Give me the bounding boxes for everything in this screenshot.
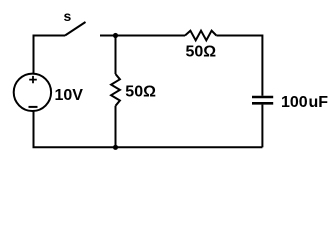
wire: bottom rail and left vertical up to source bottom	[34, 111, 263, 147]
voltage source minus sign	[29, 106, 38, 108]
svg-text:10V: 10V	[55, 87, 84, 104]
capacitor C 100uF bottom plate	[252, 102, 273, 105]
switch s blade	[65, 22, 86, 36]
node junction dot top	[113, 33, 118, 38]
svg-text:100uF: 100uF	[281, 94, 328, 111]
capacitor C 100uF top plate	[252, 96, 273, 99]
resistor R series 50Ω zigzag	[185, 31, 216, 41]
svg-text:50Ω: 50Ω	[186, 43, 217, 60]
wire: top horizontal from switch right contact to series resistor	[100, 35, 185, 37]
voltage source plus sign	[29, 76, 37, 83]
wire: top horizontal from series resistor to right corner, down to capacitor top	[216, 36, 262, 96]
wire: right vertical from capacitor bottom to bottom rail	[261, 105, 263, 148]
voltage source V 10V circle	[14, 74, 51, 111]
node junction dot bottom	[113, 145, 118, 150]
wire: middle vertical from top node to shunt resistor	[115, 36, 117, 75]
wire: top-left horizontal and left vertical down to source top	[34, 36, 66, 74]
svg-text:50Ω: 50Ω	[125, 84, 156, 101]
wire: middle vertical from shunt resistor to bottom node	[115, 106, 117, 148]
svg-text:s: s	[64, 8, 72, 24]
resistor R shunt 50Ω zigzag	[111, 74, 120, 106]
